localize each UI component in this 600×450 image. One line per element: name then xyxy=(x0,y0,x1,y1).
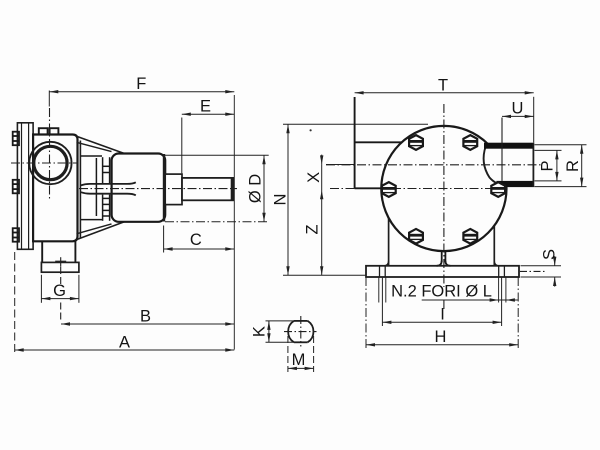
svg-text:F: F xyxy=(136,75,146,93)
foot pad xyxy=(41,262,79,272)
dimension E xyxy=(182,114,235,173)
dimension R xyxy=(535,145,587,187)
inlet port circle outer xyxy=(29,142,71,184)
dimension S xyxy=(521,256,562,286)
svg-text:E: E xyxy=(200,97,211,115)
dimension I xyxy=(382,277,501,326)
flange bolt middle xyxy=(13,180,19,194)
pump front casing block xyxy=(33,135,77,242)
bearing housing xyxy=(112,154,166,222)
dimension K xyxy=(266,321,296,342)
svg-text:Ø D: Ø D xyxy=(247,174,265,203)
flange bolt top xyxy=(13,132,19,146)
svg-text:P: P xyxy=(539,160,557,171)
support leg left xyxy=(388,218,390,266)
shaft end detail xyxy=(288,321,313,342)
svg-text:I: I xyxy=(440,306,445,324)
pump cover circle xyxy=(381,126,506,251)
port centerline horizontal xyxy=(11,162,78,164)
outlet port bore xyxy=(483,148,533,181)
taper bottom inner xyxy=(77,224,112,234)
dimension X and Z shared line xyxy=(321,164,323,275)
svg-text:C: C xyxy=(190,231,202,249)
seal face plate xyxy=(81,156,102,220)
shaft detail crosshair xyxy=(284,331,317,333)
mounting flange plates xyxy=(17,123,33,250)
svg-text:G: G xyxy=(53,282,66,300)
inlet port circle inner xyxy=(34,146,67,179)
inlet port left xyxy=(355,97,402,188)
dimension Z xyxy=(320,266,323,275)
pump horizontal centerline xyxy=(330,188,507,190)
casing inner wall xyxy=(79,141,81,239)
dimension H xyxy=(366,277,518,349)
note leader line xyxy=(422,299,518,301)
dimension A xyxy=(15,252,235,353)
dimension C xyxy=(164,226,235,253)
dimension F xyxy=(49,91,234,107)
svg-text:S: S xyxy=(541,249,559,260)
shaft end face xyxy=(231,178,233,200)
shaft centerline xyxy=(79,188,237,190)
cap bolt on body top xyxy=(39,128,59,134)
seal ladder stack xyxy=(103,157,110,221)
outlet port inner line xyxy=(501,118,503,181)
svg-text:H: H xyxy=(435,328,447,346)
shaft xyxy=(182,178,233,200)
cover bolt bottom right xyxy=(463,229,478,244)
base slot left xyxy=(380,266,386,277)
shaft collar xyxy=(165,174,182,205)
svg-text:N: N xyxy=(272,194,290,206)
taper top outer xyxy=(77,136,125,153)
dimension G xyxy=(41,275,79,303)
svg-text:K: K xyxy=(251,326,269,337)
outlet port top wall xyxy=(484,143,533,149)
port horizontal centerline xyxy=(326,164,542,166)
taper top inner xyxy=(77,142,112,151)
cover bolt top right xyxy=(463,135,478,150)
dimension T xyxy=(355,93,534,143)
cover bolt top left xyxy=(409,135,424,150)
taper bottom outer xyxy=(77,222,125,240)
svg-text:Z: Z xyxy=(304,224,322,234)
svg-text:R: R xyxy=(564,160,582,172)
dimension B xyxy=(61,323,234,325)
port centerline vertical xyxy=(49,108,51,200)
slot centerline right xyxy=(520,270,546,272)
svg-text:U: U xyxy=(512,100,524,118)
dimension X xyxy=(321,155,323,165)
svg-text:A: A xyxy=(119,333,130,351)
base plate xyxy=(366,266,519,277)
svg-text:B: B xyxy=(140,307,151,325)
outlet port bottom wall xyxy=(496,181,532,187)
cover bolt left xyxy=(381,182,396,197)
foot center mark xyxy=(55,257,66,267)
internal shaft line top xyxy=(81,182,136,185)
support leg right xyxy=(493,226,495,266)
dimension N xyxy=(283,124,428,275)
internal shaft line bottom xyxy=(81,192,136,195)
outlet port face xyxy=(532,143,534,187)
flange bolt bottom xyxy=(13,228,19,242)
svg-text:X: X xyxy=(305,172,323,183)
pedestal stem xyxy=(437,251,451,266)
foot centerline extension xyxy=(60,267,62,287)
dimension U xyxy=(502,115,534,117)
stray dot xyxy=(310,129,312,131)
cover bolt right xyxy=(491,182,506,197)
svg-text:M: M xyxy=(292,351,306,369)
svg-text:T: T xyxy=(438,76,448,94)
cover bolt bottom left xyxy=(409,229,424,244)
base slot right xyxy=(499,266,505,277)
outlet port neck curve xyxy=(484,146,498,184)
dimension M xyxy=(288,336,314,372)
dimension OD xyxy=(165,155,269,222)
vertical centerline xyxy=(443,104,445,287)
bearing housing rear face thick edge xyxy=(163,154,165,222)
svg-text:N.2 FORI Ø L: N.2 FORI Ø L xyxy=(391,283,492,301)
dimension P xyxy=(535,150,562,181)
shared extension line shaft end xyxy=(233,95,235,350)
foot column xyxy=(42,241,75,262)
